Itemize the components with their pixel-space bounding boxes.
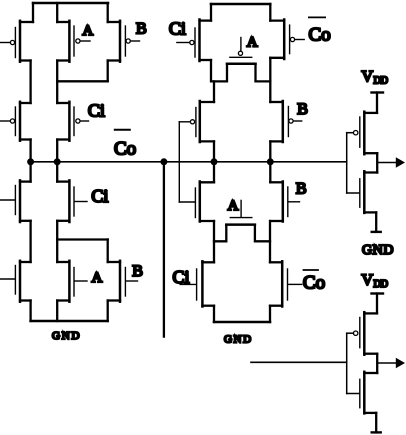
- wire: P10 drain to node: [269, 141, 271, 182]
- label A (P7): [247, 35, 258, 51]
- wire: P6 drain zigzag to P7 left: [211, 60, 227, 81]
- wire: N10 to gnd rail: [269, 306, 271, 322]
- transistor P4 (left col, row2 PMOS): [0, 102, 31, 141]
- wire: cross link row1-row2: [57, 80, 107, 82]
- label A (N4): [92, 270, 103, 286]
- wire: P8 drain down to P10: [269, 58, 271, 102]
- power terminal VDD1: [372, 93, 384, 113]
- svg-text:V: V: [362, 69, 374, 86]
- transistor P1 (left col, row1 PMOS): [0, 21, 33, 62]
- transistor N3 (left col, row4 NMOS): [0, 261, 31, 302]
- svg-text:GND: GND: [224, 334, 253, 346]
- label VDD inverter1: [362, 69, 388, 87]
- ground terminal inverter2: [372, 431, 381, 433]
- transistor N5 gate B (right col, row4 NMOS): [108, 261, 138, 302]
- transistor P5 gate Ci (mid col, row2 PMOS): [57, 102, 88, 141]
- junction dot node x163.9: [160, 158, 167, 165]
- transistor N10 gate Co-bar (mid block row4 right NMOS): [270, 261, 302, 306]
- transistor P12 (inverter2 PMOS): [354, 312, 378, 355]
- wire: N2 source trunk down: [56, 221, 58, 262]
- wire: N4 to gnd rail: [56, 301, 58, 322]
- svg-text:Ci: Ci: [88, 100, 105, 120]
- wire: N11 to gnd: [375, 212, 377, 232]
- wire: N9 to gnd rail: [213, 306, 215, 322]
- wire: mid rail drop right: [269, 4, 271, 21]
- label Ci (N2): [91, 186, 108, 206]
- ground rail left block: [31, 320, 108, 323]
- node Co-bar line: [31, 161, 347, 163]
- wire: P7 right zigzag: [256, 64, 271, 82]
- transistor P6 gate Ci (mid block row1 left PMOS): [177, 20, 211, 62]
- wire: N6 source zigzag: [213, 221, 215, 262]
- wire: cross link row3-row4: [57, 238, 107, 240]
- transistor N7 gate B (mid block row3 right NMOS): [270, 182, 299, 222]
- svg-text:Co: Co: [309, 24, 331, 45]
- power terminal VDD2: [372, 294, 384, 314]
- wire: down to N5: [107, 240, 109, 263]
- transistor N1 (left col, row3 NMOS): [0, 180, 31, 222]
- label Co-bar (node): [114, 130, 136, 160]
- wire: P9 drain to node: [213, 141, 215, 182]
- transistor N11 (inverter1 NMOS): [360, 171, 377, 213]
- junction dot node x214: [211, 158, 218, 165]
- transistor N9 gate Ci (mid block row4 left NMOS): [180, 261, 214, 306]
- wire: inverter1 input stem: [347, 133, 359, 193]
- wire: P4 drain to node: [29, 140, 31, 182]
- wire: link to N8 left: [214, 225, 226, 242]
- label GND left: [52, 330, 81, 342]
- wire: long vertical from node: [163, 162, 165, 337]
- svg-text:B: B: [297, 101, 308, 118]
- transistor N12 (inverter2 NMOS): [360, 372, 377, 414]
- wire: P5 drain to node: [56, 140, 58, 182]
- svg-text:Ci: Ci: [169, 19, 186, 39]
- wire: P3 drain down: [107, 61, 109, 82]
- wire: inverter2 input stem: [347, 333, 359, 393]
- wire: mid rail drop left: [210, 4, 212, 21]
- left block VDD rail: [33, 2, 108, 5]
- transistor N8 gate A (mid block horizontal NMOS): [226, 200, 255, 224]
- transistor P9 (mid block row2 left PMOS): [179, 101, 214, 142]
- label Co-bar (N10): [303, 270, 325, 294]
- wire: inverter1 output join: [376, 153, 378, 172]
- svg-text:GND: GND: [362, 243, 394, 258]
- transistor P3 gate B (right col, row1 PMOS): [108, 21, 140, 62]
- label B (P3): [136, 21, 147, 38]
- label A (P2): [82, 23, 93, 39]
- ground rail middle block: [214, 321, 270, 324]
- svg-text:A: A: [228, 198, 239, 214]
- label B (P10): [297, 101, 308, 118]
- wire: N3 to gnd rail: [29, 301, 31, 322]
- wire: gate line P9/N6: [178, 122, 180, 202]
- label B (N7): [296, 180, 307, 197]
- transistor P11 (inverter1 PMOS): [354, 112, 378, 155]
- svg-text:DD: DD: [374, 279, 388, 290]
- junction dot node left: [27, 158, 34, 165]
- wire: P1 drain down to P4: [29, 61, 31, 104]
- junction dot node mid-trunk: [54, 158, 61, 165]
- label Ci (N9): [173, 267, 190, 287]
- transistor N4 gate A (mid col, row4 NMOS): [57, 261, 87, 302]
- wire: rail drop right: [107, 3, 109, 22]
- wire: inverter2 input line: [251, 361, 347, 363]
- transistor N2 gate Ci (mid col, row3 NMOS): [57, 180, 87, 222]
- transistor P7 gate A (mid block horizontal PMOS): [227, 38, 256, 64]
- transistor P8 gate Co-bar (mid block row1 right PMOS): [270, 20, 304, 60]
- wire: inverter1 output line: [377, 162, 396, 164]
- arrow output Co: [396, 157, 405, 168]
- transistor P2 gate A (mid col, row1 PMOS): [57, 21, 90, 62]
- svg-text:B: B: [132, 263, 143, 280]
- label GND middle: [224, 334, 253, 346]
- svg-text:Co: Co: [114, 138, 136, 159]
- junction dot node x270.3: [267, 158, 274, 165]
- label A (N8): [228, 198, 239, 214]
- svg-text:GND: GND: [52, 330, 81, 342]
- wire: rail drop left: [32, 3, 34, 22]
- svg-text:B: B: [296, 180, 307, 197]
- label Co-bar (P8): [309, 17, 331, 45]
- wire: N12 to gnd: [375, 413, 377, 433]
- svg-text:Co: Co: [303, 273, 325, 294]
- label GND inverter1: [362, 243, 394, 258]
- svg-text:B: B: [136, 21, 147, 38]
- svg-text:DD: DD: [374, 76, 388, 87]
- svg-text:V: V: [362, 272, 374, 289]
- wire: N1 source down to N3: [29, 221, 31, 262]
- label B (N5): [132, 263, 143, 280]
- wire: P2 drain trunk down: [56, 61, 58, 104]
- transistor N6 (mid block row3 left NMOS): [179, 182, 214, 222]
- wire: inverter2 output join: [376, 354, 378, 373]
- wire: N5 to gnd rail: [107, 301, 109, 322]
- svg-text:Ci: Ci: [91, 186, 108, 206]
- svg-text:A: A: [247, 35, 258, 51]
- wire: N8 right zigzag: [255, 225, 270, 242]
- ground terminal inverter1: [372, 231, 381, 233]
- wire: inverter2 output line: [377, 362, 396, 364]
- svg-text:A: A: [92, 270, 103, 286]
- label Ci (P6): [169, 19, 186, 39]
- transistor P10 gate B (mid block row2 right PMOS): [270, 101, 301, 142]
- label VDD inverter2: [362, 272, 388, 290]
- wire: N7 source down to N10: [269, 221, 271, 262]
- middle block VDD rail: [211, 3, 270, 6]
- wire: down branch to P9: [213, 81, 215, 102]
- svg-text:A: A: [82, 23, 93, 39]
- wire: rail drop mid trunk: [56, 3, 58, 22]
- arrow output Sum: [396, 358, 405, 369]
- label Ci (P5): [88, 100, 105, 120]
- svg-text:Ci: Ci: [173, 267, 190, 287]
